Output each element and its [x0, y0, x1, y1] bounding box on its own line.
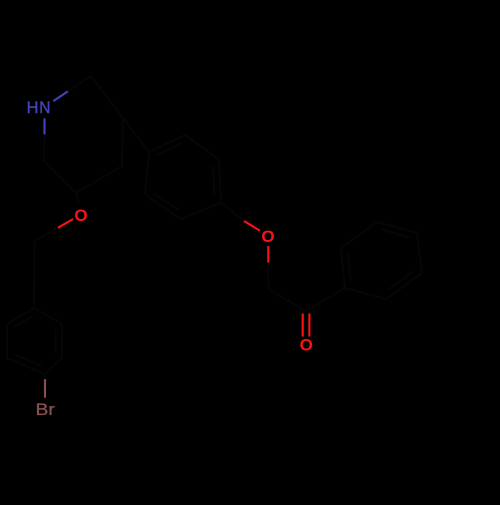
aromatic inner lines [154, 193, 179, 210]
svg-text:O: O [74, 206, 87, 225]
svg-text:Br: Br [36, 401, 56, 419]
piperidine ring [44, 76, 123, 193]
wire N-C5 blue half [43, 118, 45, 134]
wire O1-CH2a dark half [34, 228, 58, 241]
ether O1 bond to CH2a: red half [58, 219, 73, 228]
bond C-Br [44, 374, 46, 379]
aromatic inner lines [55, 329, 57, 353]
aromatic inner lines [348, 253, 351, 281]
bromophenyl ring [7, 308, 62, 374]
wire CH2a-bromophenyl [33, 241, 35, 308]
wire N-C1 dark half [68, 76, 91, 91]
amine N blue bond halves [44, 91, 67, 134]
svg-text:N: N [39, 99, 50, 117]
wire C4-C5 [44, 162, 76, 194]
wire Ck-right phenyl [306, 288, 345, 311]
wire N-C1 blue half [53, 91, 68, 101]
bond O2-CH2b: red half then dark [267, 246, 269, 263]
right phenyl ring [341, 222, 422, 299]
wire C3-C4 [76, 166, 122, 193]
wire C5-N dark half [43, 134, 45, 161]
wire C2-C3 [122, 118, 123, 166]
svg-text:O: O [300, 336, 313, 355]
node C4-O1 short bond [76, 193, 79, 204]
carbonyl C=O double bond [303, 312, 310, 337]
wire CH2b-Ck [269, 290, 307, 312]
central benzene ring [145, 135, 221, 219]
svg-text:O: O [261, 227, 274, 246]
svg-text:H: H [27, 99, 39, 117]
bond C_ar-O2: dark half then red half [221, 203, 244, 222]
wire C1-C2 [91, 76, 123, 118]
wire piperidine C2 to central ring [123, 118, 149, 152]
